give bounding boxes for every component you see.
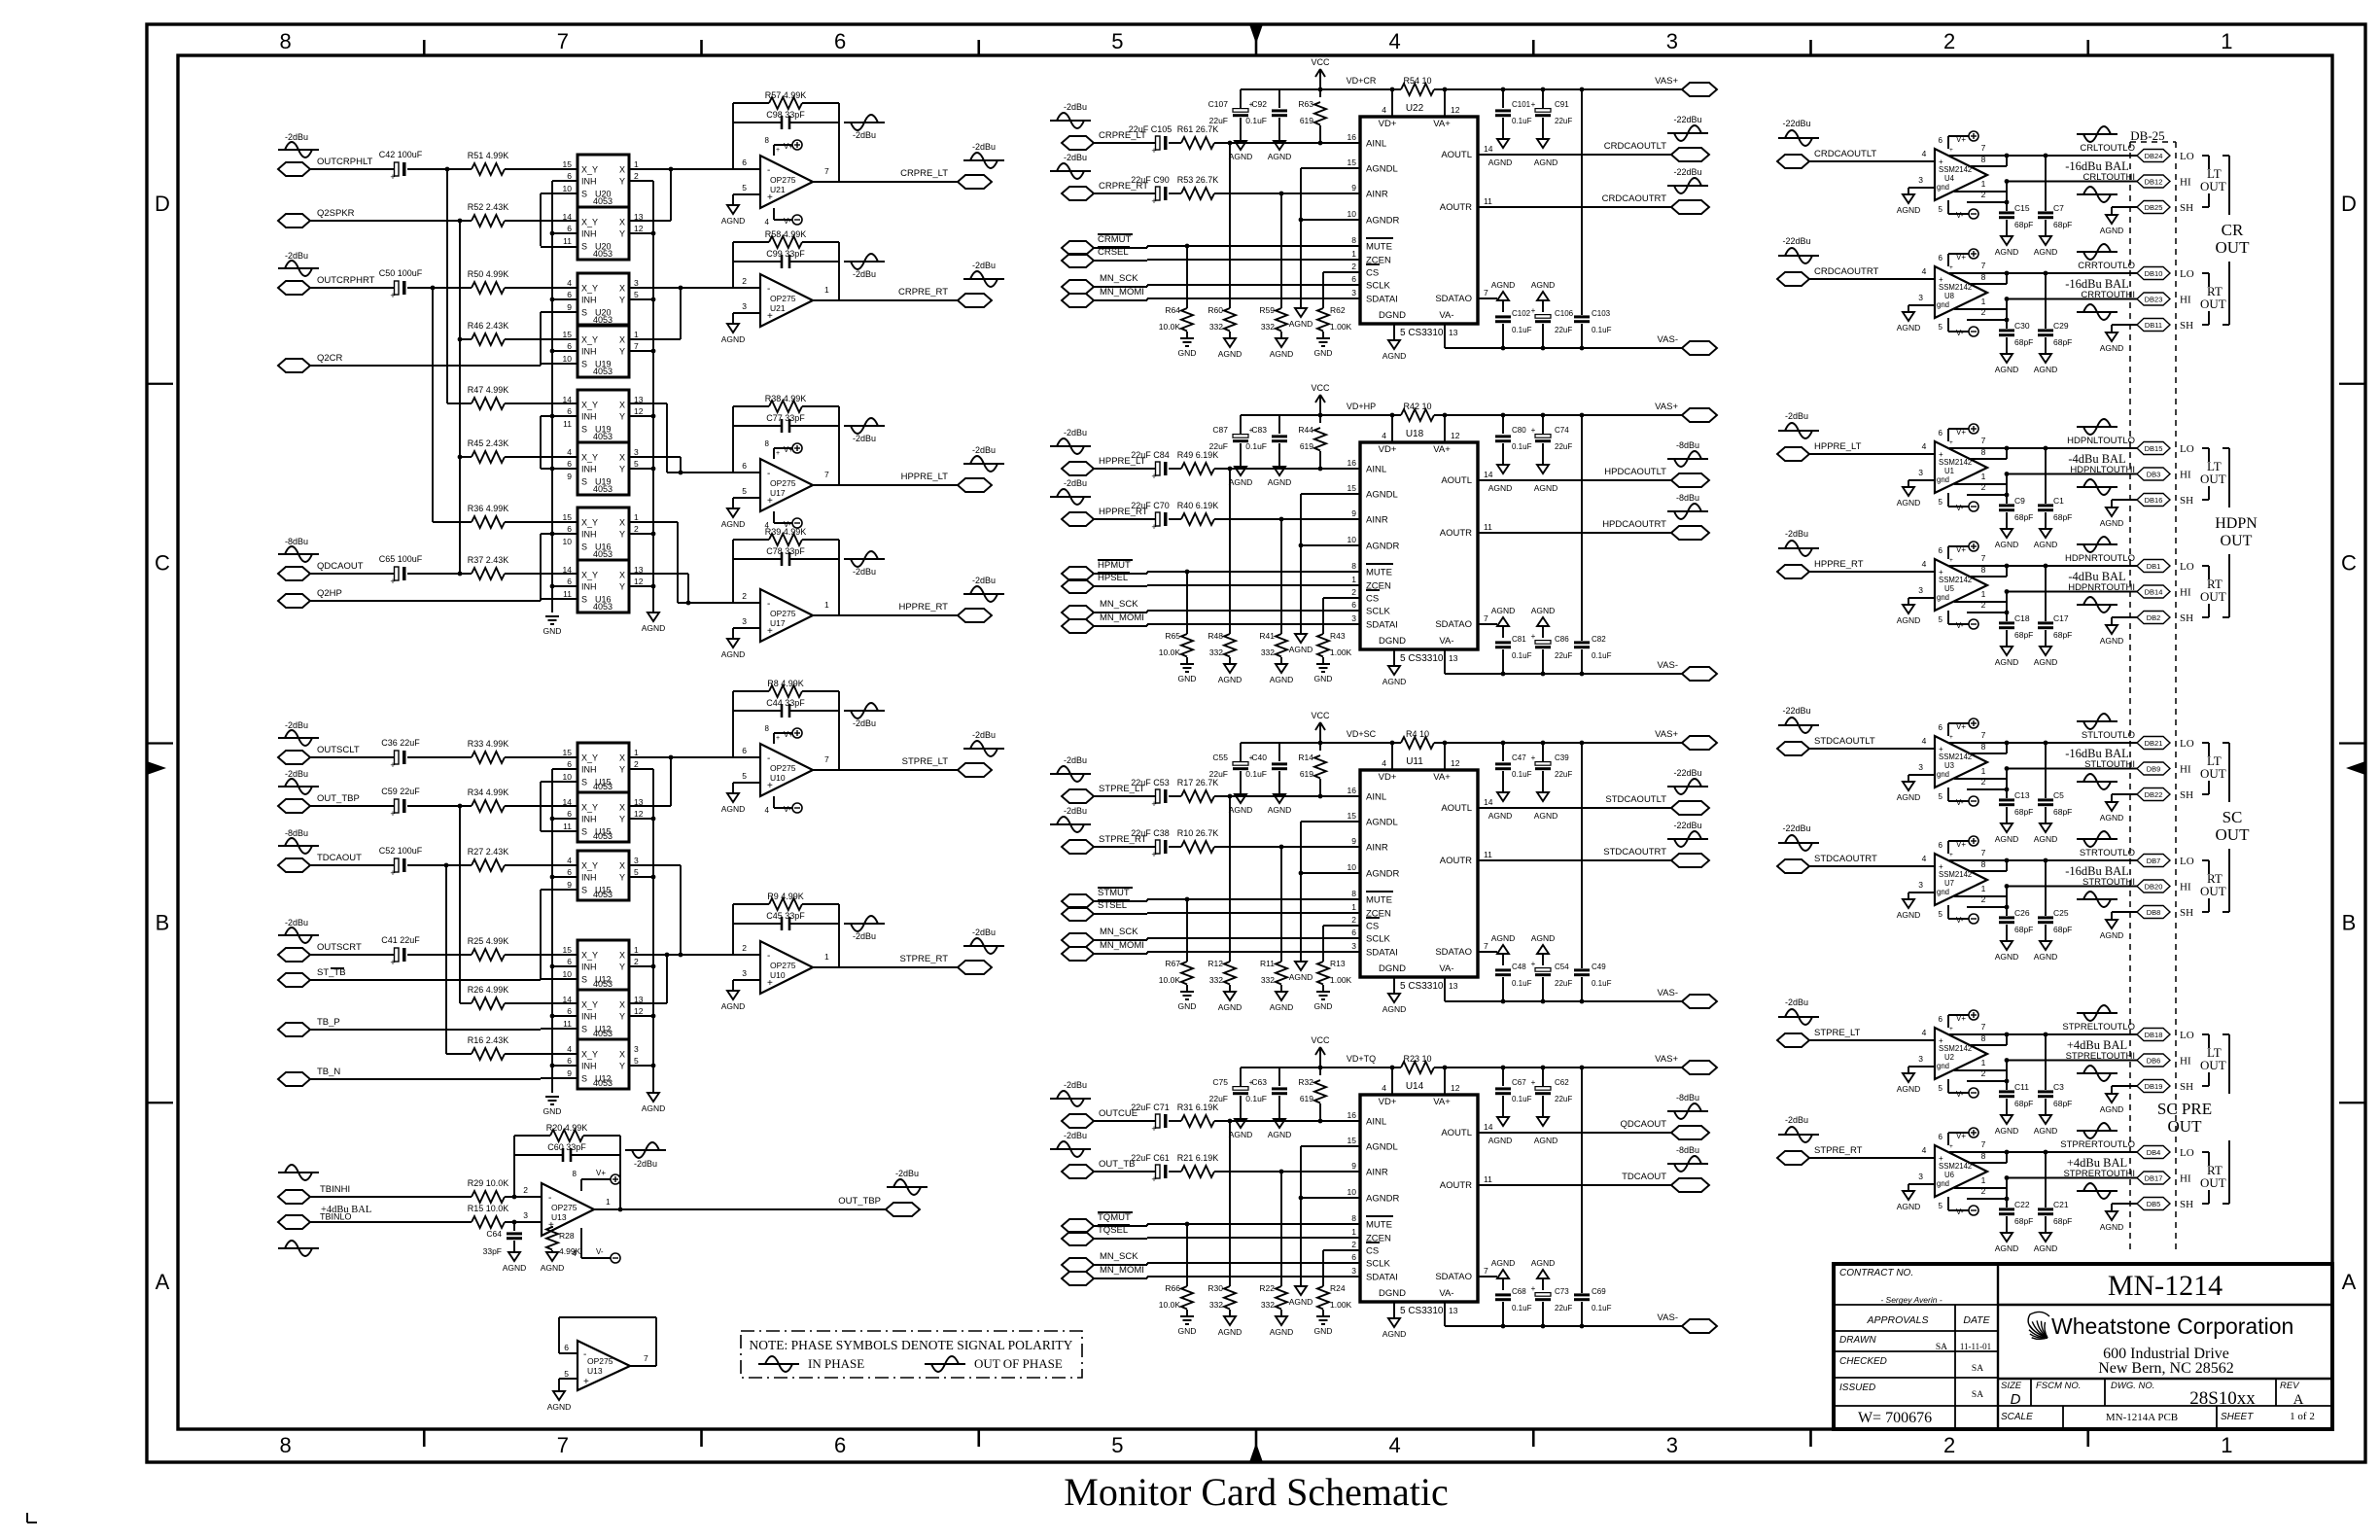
svg-text:16: 16	[1347, 1110, 1357, 1120]
svg-text:MN_MOMI: MN_MOMI	[1100, 940, 1144, 951]
svg-text:AGND: AGND	[1897, 205, 1921, 215]
svg-text:7: 7	[1484, 288, 1488, 297]
wire HPPRE_LT to driver	[1809, 453, 1935, 455]
svg-text:C92: C92	[1251, 99, 1267, 109]
svg-text:GND: GND	[543, 1106, 562, 1116]
wire OUTCUE to cap	[1094, 1120, 1155, 1122]
svg-text:AGND: AGND	[2100, 813, 2124, 822]
capacitor C65 100uF	[379, 554, 423, 586]
svg-text:VA-: VA-	[1439, 636, 1453, 647]
ground AGND U4	[1897, 194, 1921, 215]
wire pin8 loop U4	[1971, 165, 2007, 167]
svg-text:GND: GND	[1314, 348, 1333, 358]
svg-text:+: +	[767, 978, 773, 989]
svg-text:1: 1	[824, 952, 829, 962]
svg-text:332: 332	[1209, 647, 1223, 657]
wire pin2 U8	[1967, 319, 2007, 321]
svg-text:4: 4	[1382, 1083, 1386, 1093]
wire gnd pin3 U1	[1908, 479, 1935, 481]
svg-text:-2dBu: -2dBu	[853, 130, 876, 140]
svg-text:gnd: gnd	[1937, 888, 1949, 896]
svg-text:R17 26.7K: R17 26.7K	[1177, 778, 1219, 787]
wire R17 to pin	[1214, 795, 1360, 797]
svg-text:SA: SA	[1972, 1390, 1983, 1400]
svg-text:DGND: DGND	[1379, 963, 1406, 974]
svg-text:GND: GND	[1314, 674, 1333, 683]
wire SDATAO stub	[1478, 951, 1497, 953]
phase symbol between HI SH	[2077, 892, 2117, 907]
ground AGND under DGND	[1382, 666, 1407, 686]
svg-text:-16dBu BAL: -16dBu BAL	[2065, 277, 2129, 291]
svg-text:C22: C22	[2014, 1200, 2030, 1209]
svg-text:4053: 4053	[593, 1078, 612, 1088]
svg-text:AGND: AGND	[1531, 1258, 1556, 1268]
svg-text:9: 9	[1351, 508, 1356, 518]
input flag Q2CR	[278, 353, 343, 372]
resistor R67 10.0K	[1159, 959, 1193, 992]
svg-text:AGND: AGND	[642, 1103, 666, 1113]
svg-text:Y: Y	[619, 1062, 625, 1071]
wire output CRPRE_LT	[839, 181, 958, 183]
wire section note	[0, 0, 1, 1]
phase symbol between HI SH	[2077, 479, 2117, 495]
wire Q2CR to S pin	[310, 365, 541, 367]
svg-text:5: 5	[1939, 498, 1943, 507]
volume control IC U14 CS3310	[1347, 1081, 1493, 1316]
svg-text:STPRERTOUTHI: STPRERTOUTHI	[2063, 1169, 2135, 1179]
wire vertical bus x459 lower	[445, 865, 447, 1054]
wire pin7 output STRTOUTLO	[1949, 859, 2137, 861]
capacitor C9 68pF	[1999, 493, 2033, 529]
svg-text:C102: C102	[1512, 309, 1531, 318]
connector pin DB11	[2137, 319, 2170, 332]
svg-text:Y: Y	[619, 412, 625, 422]
resistor R41 332	[1259, 631, 1287, 664]
connector pin DB24	[2137, 150, 2170, 162]
svg-text:SDATAI: SDATAI	[1366, 948, 1398, 959]
wire DGND pin5	[1393, 324, 1395, 340]
svg-text:DGND: DGND	[1379, 1288, 1406, 1299]
wire AOUTL to HPDCAOUTLT	[1478, 479, 1671, 481]
resistor R34 4.99K	[468, 787, 509, 812]
ground AGND U2	[1897, 1073, 1921, 1094]
svg-text:+: +	[548, 1220, 554, 1231]
wire SH to AGND	[2112, 324, 2137, 326]
svg-text:HPPRE_LT: HPPRE_LT	[1814, 441, 1862, 452]
phase symbol OUT_TB	[1050, 1131, 1091, 1157]
svg-text:C47: C47	[1512, 753, 1526, 762]
wire CS pin to pull	[1323, 1249, 1360, 1251]
svg-text:S: S	[581, 360, 587, 369]
svg-text:0.1uF: 0.1uF	[1512, 1095, 1532, 1103]
ground GND under R24	[1314, 1316, 1333, 1336]
analog switch U12 section B	[563, 990, 644, 1039]
wire AOUTR to CRDCAOUTRT	[1478, 206, 1671, 208]
svg-text:R52 2.43K: R52 2.43K	[468, 202, 509, 212]
svg-text:2: 2	[1981, 1068, 1986, 1078]
capacitor C40 0.1uF	[1245, 743, 1287, 794]
wire CRPRE_LT to cap	[1094, 142, 1155, 144]
wire AOUTL to STDCAOUTLT	[1478, 807, 1671, 809]
svg-text:4: 4	[1922, 854, 1927, 863]
svg-text:VAS+: VAS+	[1655, 76, 1678, 87]
resistor R66 10.0K	[1159, 1283, 1193, 1316]
svg-text:6: 6	[567, 290, 572, 299]
control flag STSEL	[1062, 900, 1130, 921]
svg-text:14: 14	[1484, 1122, 1493, 1132]
svg-text:-2dBu: -2dBu	[853, 931, 876, 941]
wire R16 row	[446, 1053, 472, 1055]
svg-text:HI: HI	[2180, 177, 2191, 189]
svg-text:MN_SCK: MN_SCK	[1100, 599, 1138, 610]
resistor R4 10	[1401, 729, 1434, 749]
svg-text:22uF: 22uF	[1555, 770, 1572, 779]
phase symbol output CRPRE_LT	[963, 142, 1004, 168]
svg-text:X_Y: X_Y	[581, 571, 598, 580]
svg-text:LO: LO	[2180, 1030, 2194, 1041]
resistor R44 619	[1298, 415, 1326, 471]
svg-text:S: S	[581, 1074, 587, 1084]
svg-text:X: X	[619, 1050, 625, 1060]
svg-text:2: 2	[634, 957, 639, 966]
phase symbol CRRTOUTLO	[2077, 244, 2117, 260]
svg-text:AGND: AGND	[721, 649, 746, 659]
svg-text:8: 8	[1981, 155, 1986, 164]
svg-text:X_Y: X_Y	[581, 951, 598, 961]
svg-text:1: 1	[634, 330, 639, 339]
wire ST_TB to S pin	[310, 979, 541, 981]
resistor R15 10.0K	[468, 1204, 509, 1228]
resistor R63 619	[1298, 89, 1326, 145]
svg-text:STLTOUTHI: STLTOUTHI	[2084, 759, 2135, 770]
ground AGND SH	[2100, 215, 2124, 235]
wire X outputs to op-amps lower	[629, 755, 733, 1003]
ground AGND under C80	[1488, 465, 1513, 493]
phase symbol HPDCAOUTRT	[1667, 493, 1708, 519]
wire pin2 U2	[1967, 1080, 2007, 1082]
svg-text:-2dBu: -2dBu	[285, 918, 308, 927]
capacitor C29 68pF	[2038, 273, 2072, 354]
svg-text:S: S	[581, 308, 587, 318]
control flag CRSEL	[1062, 247, 1130, 267]
svg-text:S: S	[581, 242, 587, 252]
svg-text:3: 3	[634, 1044, 639, 1054]
wire R10 to pin	[1214, 846, 1360, 848]
svg-text:V-: V-	[1956, 798, 1964, 807]
svg-text:DB25: DB25	[2145, 203, 2163, 212]
svg-text:+: +	[1531, 306, 1536, 315]
svg-text:4053: 4053	[593, 890, 612, 899]
ground AGND SH	[2100, 920, 2124, 940]
svg-text:SSM2142: SSM2142	[1939, 283, 1972, 292]
power flag VAS-	[1658, 660, 1717, 681]
svg-text:STSEL: STSEL	[1098, 900, 1127, 911]
wire X outputs to op-amp bus upper	[629, 167, 733, 606]
svg-text:7: 7	[1981, 143, 1986, 153]
capacitor C106 22uF	[1531, 280, 1574, 348]
wire to R21	[1169, 1171, 1181, 1172]
svg-text:AGND: AGND	[2100, 343, 2124, 353]
ground AGND under C26	[1995, 941, 2019, 962]
svg-text:C107: C107	[1208, 99, 1229, 109]
svg-text:R24: R24	[1330, 1283, 1346, 1293]
svg-text:V+: V+	[784, 730, 793, 739]
svg-text:AOUTR: AOUTR	[1440, 856, 1472, 866]
resistor R26 4.99K	[468, 985, 509, 1009]
svg-text:2: 2	[1981, 600, 1986, 610]
svg-text:DB18: DB18	[2145, 1031, 2163, 1039]
ground AGND under R28	[541, 1252, 565, 1273]
capacitor C62 22uF	[1531, 1066, 1573, 1117]
svg-text:OP275: OP275	[551, 1203, 577, 1212]
svg-text:R25 4.99K: R25 4.99K	[468, 936, 509, 946]
svg-text:V-: V-	[596, 1247, 604, 1256]
resistor R25 4.99K	[468, 936, 509, 961]
svg-text:HPSEL: HPSEL	[1098, 573, 1128, 583]
wire HPPRE_LT to cap	[1094, 468, 1155, 470]
svg-text:10.0K: 10.0K	[1159, 1300, 1181, 1310]
svg-text:V-: V-	[784, 805, 791, 814]
wire MN_SCK to SCLK	[1094, 1264, 1147, 1266]
resistor R12 332	[1207, 959, 1236, 992]
svg-text:INH: INH	[581, 530, 597, 540]
analog switch U19 section C	[567, 442, 639, 495]
wire CRMUT to MUTE	[1094, 247, 1147, 249]
svg-text:68pF: 68pF	[2014, 512, 2033, 522]
svg-text:68pF: 68pF	[2014, 630, 2033, 640]
svg-text:5: 5	[1111, 1433, 1123, 1457]
ground GND under R43	[1314, 664, 1333, 683]
svg-text:7: 7	[1981, 1139, 1986, 1149]
input flag CRPRE_LT	[1062, 130, 1146, 150]
svg-text:SH: SH	[2180, 612, 2193, 624]
svg-text:AOUTL: AOUTL	[1441, 150, 1472, 160]
wire VA- pin13 to VAS- rail	[1444, 649, 1446, 674]
wire AGNDL AGNDR to AGND	[1301, 167, 1360, 169]
svg-text:B: B	[2342, 910, 2357, 934]
svg-text:R33 4.99K: R33 4.99K	[468, 739, 509, 749]
svg-text:+: +	[1531, 632, 1536, 641]
svg-text:X: X	[619, 335, 625, 345]
wire AOUTR to TDCAOUT	[1478, 1184, 1671, 1186]
wire SH to AGND	[2112, 206, 2137, 208]
ground AGND under C55	[1229, 794, 1253, 815]
wire VD rail VD+TQ	[1241, 1067, 1401, 1068]
svg-text:8: 8	[280, 29, 292, 53]
svg-text:13: 13	[1449, 653, 1458, 663]
wire AINR junction to pull	[1279, 845, 1284, 850]
svg-text:6: 6	[567, 957, 572, 966]
wire Y output bus upper cluster	[629, 181, 655, 612]
label SHEET 1 of 2	[2221, 1411, 2315, 1422]
ground AGND under R59	[1270, 338, 1294, 359]
svg-text:HI: HI	[2180, 1173, 2191, 1185]
svg-text:-22dBu: -22dBu	[1673, 167, 1701, 177]
svg-text:-2dBu: -2dBu	[1064, 428, 1087, 437]
input flag CRDCAOUTLT	[1777, 149, 1876, 168]
wire SH to AGND	[2112, 911, 2137, 913]
wire HPPRE_RT to cap	[1094, 518, 1155, 520]
connector pin DB23	[2137, 293, 2170, 305]
svg-text:Y: Y	[619, 815, 625, 824]
svg-text:6: 6	[567, 341, 572, 351]
svg-text:4: 4	[1922, 1028, 1927, 1037]
phase symbol CRDCAOUTLT	[1667, 115, 1708, 141]
svg-text:8: 8	[1981, 1033, 1986, 1043]
wire AGNDL AGNDR to AGND	[1301, 493, 1360, 495]
capacitor C49 0.1uF	[1574, 741, 1612, 1001]
label LO HI SH	[2180, 1030, 2194, 1093]
svg-text:VAS+: VAS+	[1655, 1054, 1678, 1065]
svg-text:C36 22uF: C36 22uF	[381, 738, 420, 748]
wire C65 to R37	[407, 573, 472, 575]
svg-text:6: 6	[1939, 254, 1943, 262]
svg-text:X_Y: X_Y	[581, 335, 598, 345]
svg-text:2: 2	[1351, 915, 1356, 925]
zone row ticks left/right	[147, 384, 2365, 1103]
svg-text:1.00K: 1.00K	[1330, 975, 1352, 985]
wire pin1 U2	[1954, 1069, 2007, 1071]
svg-text:X: X	[619, 453, 625, 463]
svg-text:SCLK: SCLK	[1366, 281, 1390, 292]
wire R31 to pin	[1214, 1120, 1360, 1122]
wire pin2 U3	[1967, 788, 2007, 790]
wire R26 row	[460, 1002, 472, 1004]
phase symbol STPRELTOUTLO	[2077, 1005, 2117, 1021]
svg-text:AGND: AGND	[1229, 152, 1253, 161]
svg-text:SDATAO: SDATAO	[1435, 619, 1472, 630]
svg-text:MUTE: MUTE	[1366, 568, 1392, 578]
svg-text:6: 6	[742, 461, 747, 471]
capacitor C105 22uF	[1129, 124, 1172, 156]
wire AINR junction to pull	[1279, 192, 1284, 196]
svg-text:X: X	[619, 218, 625, 227]
svg-text:Y: Y	[619, 530, 625, 540]
svg-text:gnd: gnd	[1937, 1179, 1949, 1188]
svg-text:C7: C7	[2053, 203, 2064, 213]
svg-text:3: 3	[1351, 288, 1356, 297]
connector pin DB1	[2137, 560, 2170, 573]
svg-text:14: 14	[1484, 144, 1493, 154]
wire HPMUT to MUTE	[1094, 573, 1147, 575]
capacitor C1 68pF	[2038, 448, 2072, 529]
svg-text:8: 8	[1981, 1151, 1986, 1161]
line driver U8 SSM2142	[1935, 249, 1987, 337]
svg-text:INH: INH	[581, 347, 597, 357]
wire VD+ pin4 U14	[1391, 1067, 1393, 1095]
svg-text:332: 332	[1261, 975, 1275, 985]
input flag CRPRE_RT	[1062, 181, 1148, 200]
svg-text:SDATAO: SDATAO	[1435, 294, 1472, 304]
svg-text:INH: INH	[581, 873, 597, 883]
resistor R14 619	[1298, 743, 1326, 798]
svg-text:6: 6	[1939, 1015, 1943, 1024]
phase symbol between HI SH	[2077, 1066, 2117, 1081]
ground GND under R64	[1178, 338, 1197, 358]
svg-text:R9 4.99K: R9 4.99K	[767, 892, 804, 901]
svg-text:15: 15	[1347, 1136, 1357, 1145]
op-amp U21	[721, 229, 839, 344]
svg-text:X: X	[619, 571, 625, 580]
svg-text:-22dBu: -22dBu	[1673, 821, 1701, 830]
capacitor C11 68pF	[1999, 1079, 2033, 1115]
control flag HPSEL	[1062, 573, 1130, 593]
connector pin DB15	[2137, 442, 2170, 455]
input flag STDCAOUTLT	[1777, 736, 1875, 755]
svg-text:V+: V+	[784, 445, 793, 454]
ground AGND under C107	[1229, 141, 1253, 161]
power flag VAS-	[1658, 334, 1717, 355]
svg-text:gnd: gnd	[1937, 475, 1949, 484]
svg-text:11: 11	[563, 589, 572, 599]
svg-text:AOUTR: AOUTR	[1440, 528, 1472, 539]
svg-text:-: -	[767, 599, 770, 610]
power VCC U22	[1311, 57, 1330, 91]
svg-text:68pF: 68pF	[2053, 807, 2072, 817]
svg-text:DB4: DB4	[2147, 1148, 2161, 1157]
output flag STPRE_LT	[902, 756, 992, 777]
svg-text:OP275: OP275	[770, 175, 796, 185]
phase symbol STPRE_LT	[1050, 755, 1091, 782]
svg-text:12: 12	[1451, 431, 1460, 440]
phase symbol output HPPRE_RT	[963, 576, 1004, 602]
wire C36 to R33	[407, 756, 472, 758]
svg-text:2: 2	[1981, 482, 1986, 492]
svg-text:+: +	[390, 577, 395, 586]
input flag TBINHI	[278, 1184, 350, 1204]
resistor R32 619	[1298, 1067, 1326, 1123]
svg-text:-2dBu: -2dBu	[972, 261, 996, 270]
svg-text:SIZE: SIZE	[2001, 1381, 2022, 1391]
svg-text:1: 1	[824, 600, 829, 610]
ground AGND under C25	[2034, 941, 2058, 962]
svg-text:AGND: AGND	[1995, 365, 2019, 374]
svg-text:U5: U5	[1944, 584, 1955, 593]
svg-text:TBINLO: TBINLO	[320, 1212, 352, 1222]
svg-text:5: 5	[1939, 792, 1943, 801]
svg-text:LO: LO	[2180, 151, 2194, 162]
svg-text:-8dBu: -8dBu	[1676, 493, 1699, 503]
svg-text:C99 33pF: C99 33pF	[766, 249, 805, 259]
svg-text:AGND: AGND	[1995, 247, 2019, 257]
svg-text:8: 8	[1351, 1213, 1356, 1223]
svg-text:7: 7	[1981, 848, 1986, 857]
phase symbol TDCAOUT	[278, 828, 319, 854]
ground AGND under C92	[1268, 141, 1292, 161]
logo Wheatstone leaf	[2028, 1312, 2049, 1339]
phase symbol input STPRE_LT	[1778, 997, 1819, 1025]
ground AGND upper cluster	[642, 612, 666, 633]
svg-text:AGND: AGND	[2100, 1222, 2124, 1232]
svg-text:+: +	[1531, 1284, 1536, 1293]
wire output CRPRE_RT	[839, 299, 958, 301]
svg-text:C101: C101	[1512, 100, 1531, 109]
control flag MN_SCK	[1062, 273, 1138, 294]
svg-text:0.1uF: 0.1uF	[1512, 1304, 1532, 1312]
svg-text:D: D	[2011, 1391, 2021, 1408]
svg-text:3: 3	[523, 1210, 528, 1220]
svg-text:OP275: OP275	[770, 609, 796, 618]
svg-text:+: +	[1151, 850, 1156, 859]
svg-text:MN_MOMI: MN_MOMI	[1100, 1265, 1144, 1276]
wire INH bus lower cluster	[550, 769, 577, 1093]
input flag OUT_TB	[1062, 1159, 1135, 1178]
capacitor C82 0.1uF	[1574, 413, 1612, 674]
svg-text:OP275: OP275	[770, 763, 796, 773]
svg-text:+: +	[390, 760, 395, 770]
svg-text:STPRE_RT: STPRE_RT	[900, 954, 949, 964]
svg-text:OUT: OUT	[2200, 884, 2226, 898]
